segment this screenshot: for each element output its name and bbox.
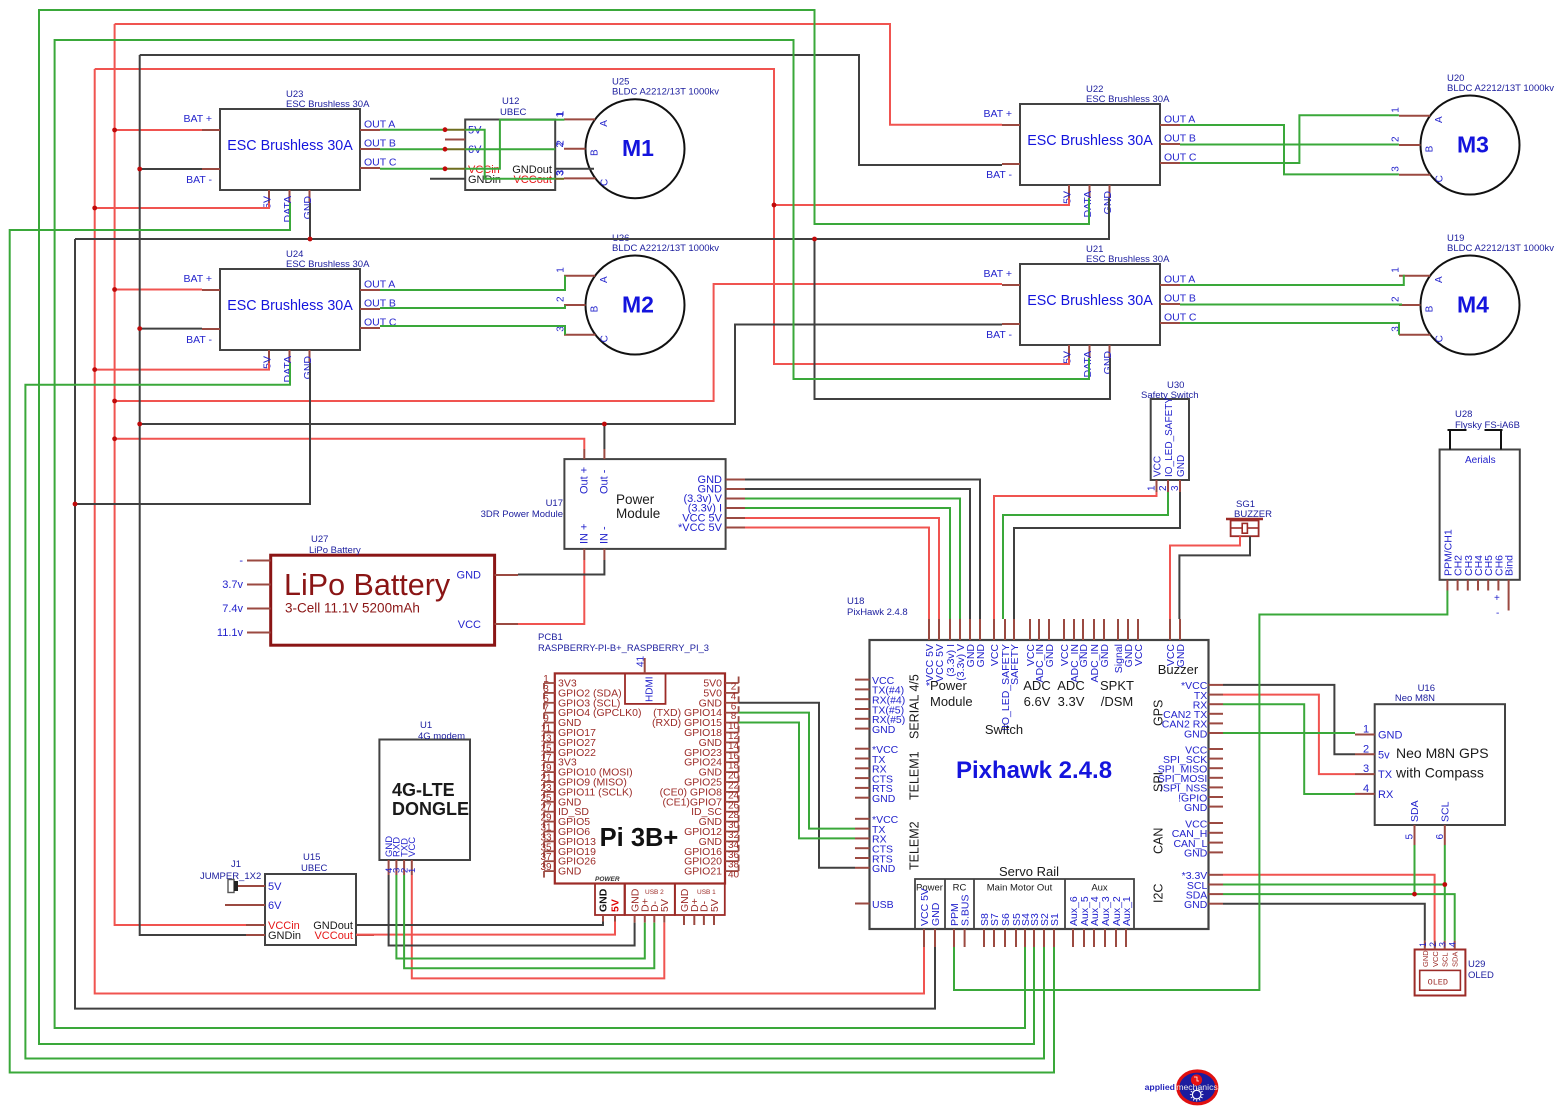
wire Pi GND to TELEM2 <box>739 703 855 868</box>
svg-text:BLDC A2212/13T 1000kv: BLDC A2212/13T 1000kv <box>1447 243 1554 254</box>
junction <box>112 399 117 404</box>
svg-text:Pixhawk 2.4.8: Pixhawk 2.4.8 <box>956 757 1112 784</box>
svg-text:GPIO21: GPIO21 <box>684 866 722 878</box>
svg-text:4G-LTE: 4G-LTE <box>392 780 455 800</box>
svg-text:GND: GND <box>872 724 896 736</box>
svg-text:39: 39 <box>540 862 552 873</box>
svg-text:U1: U1 <box>420 720 432 731</box>
wire LiPo VCC to IN+ <box>518 560 584 624</box>
ESC U24 (ESC Brushless 30A) <box>183 249 396 382</box>
wire U22 OUT C to M3-A <box>1180 115 1399 163</box>
svg-text:U17: U17 <box>546 498 563 509</box>
svg-text:2: 2 <box>556 296 567 302</box>
svg-text:U12: U12 <box>502 96 519 107</box>
svg-text:VCC: VCC <box>1133 644 1145 667</box>
svg-text:S1: S1 <box>1049 913 1061 926</box>
svg-text:DONGLE: DONGLE <box>392 799 469 819</box>
wire GND U21 branch <box>815 239 1111 399</box>
svg-text:Out +: Out + <box>579 467 591 494</box>
junction <box>137 326 142 331</box>
flight controller U18 (Pixhawk 2.4.8) <box>847 596 1223 947</box>
svg-text:1: 1 <box>1418 942 1428 947</box>
UBEC U12 <box>430 96 594 190</box>
svg-text:GND: GND <box>302 356 314 380</box>
svg-text:B: B <box>590 305 601 312</box>
svg-text:5V: 5V <box>262 356 274 369</box>
svg-text:ESC Brushless 30A: ESC Brushless 30A <box>286 99 370 110</box>
wire PM GND2 to Pixhawk <box>745 489 970 619</box>
svg-text:3: 3 <box>1363 763 1369 775</box>
svg-text:BAT +: BAT + <box>183 273 212 285</box>
svg-text:S.BUS: S.BUS <box>959 894 971 926</box>
svg-text:BAT +: BAT + <box>183 113 212 125</box>
svg-text:5V: 5V <box>709 899 721 912</box>
svg-text:RC: RC <box>953 883 967 894</box>
wire UBEC VCCout to Pi 5V <box>356 922 615 935</box>
wire GPS RX <box>1223 704 1355 794</box>
svg-text:GND: GND <box>457 570 482 582</box>
wire safety VCC <box>994 492 1157 619</box>
wire 4G VCC to USB2 5V <box>412 875 665 978</box>
wire LiPo GND to IN- <box>518 560 604 575</box>
svg-text:CAN: CAN <box>1152 828 1166 854</box>
svg-text:ESC Brushless 30A: ESC Brushless 30A <box>1027 293 1153 309</box>
svg-text:A: A <box>1434 276 1445 283</box>
svg-text:BAT +: BAT + <box>983 268 1012 280</box>
wire I2C 3.3V to OLED <box>1223 875 1435 941</box>
svg-text:1: 1 <box>1391 267 1402 273</box>
wire U24 OUT A to M2-A <box>380 276 565 290</box>
svg-text:GND: GND <box>1421 950 1430 967</box>
wire BAT+ U21 <box>115 284 1002 401</box>
junction <box>112 436 117 441</box>
svg-text:M2: M2 <box>622 292 654 318</box>
svg-text:Aux_1: Aux_1 <box>1121 896 1133 926</box>
svg-text:VCC: VCC <box>407 837 418 857</box>
svg-text:2: 2 <box>1158 485 1169 491</box>
wire I2C SDA to OLED <box>1223 894 1455 941</box>
svg-text:GND: GND <box>930 902 942 926</box>
svg-text:Main Motor Out: Main Motor Out <box>987 883 1053 894</box>
ESC U22 (ESC Brushless 30A) <box>983 84 1196 217</box>
svg-text:5V: 5V <box>262 196 274 209</box>
svg-text:JUMPER_1X2: JUMPER_1X2 <box>200 871 261 882</box>
svg-text:OUT B: OUT B <box>364 138 396 150</box>
svg-text:5V: 5V <box>268 881 282 893</box>
svg-text:3: 3 <box>1391 166 1402 172</box>
wire Pi TXD to TELEM2 TX <box>739 713 855 829</box>
wire BAT- top bus to U22 <box>140 55 1002 165</box>
Raspberry Pi PCB1 (Pi 3B+) <box>538 632 739 925</box>
svg-text:DATA: DATA <box>282 356 294 382</box>
svg-text:GND: GND <box>975 644 987 668</box>
svg-text:POWER: POWER <box>595 876 620 883</box>
svg-text:GND: GND <box>1099 644 1111 668</box>
ESC U23 (ESC Brushless 30A) <box>183 89 396 222</box>
junction <box>137 167 142 172</box>
svg-text:DATA: DATA <box>282 196 294 222</box>
wire U21 OUT A to M4-A <box>1180 275 1404 285</box>
svg-text:BAT +: BAT + <box>983 108 1012 120</box>
jumper J1 (JUMPER_1X2) <box>200 859 261 905</box>
wire BAT+ top bus to U22 <box>115 24 1002 125</box>
wire U21 OUT B to M4-B <box>1180 304 1402 306</box>
svg-text:GND: GND <box>598 888 610 912</box>
svg-text:BAT -: BAT - <box>986 329 1012 341</box>
svg-text:OUT A: OUT A <box>364 279 395 291</box>
svg-text:Neo M8N: Neo M8N <box>1395 693 1435 704</box>
junction <box>443 147 448 152</box>
wire U21 OUT C to M4-C <box>1180 323 1399 335</box>
svg-text:SDA: SDA <box>1451 952 1460 967</box>
wire Pi RXD to TELEM2 RX <box>739 723 855 839</box>
svg-text:5V: 5V <box>1062 351 1074 364</box>
svg-text:GND: GND <box>1184 848 1208 860</box>
svg-text:Module: Module <box>930 694 973 709</box>
motor M4 (U19 BLDC A2212/13T 1000kv) <box>1391 233 1555 355</box>
svg-text:3: 3 <box>1438 942 1448 947</box>
svg-text:SPKT: SPKT <box>1100 678 1134 693</box>
wire PM GND1 to Pixhawk <box>745 480 980 620</box>
svg-text:OUT B: OUT B <box>1164 133 1196 145</box>
svg-text:VCC: VCC <box>1153 456 1164 477</box>
svg-text:3: 3 <box>555 170 566 176</box>
4G modem U1 (4G-LTE DONGLE) <box>379 720 470 875</box>
receiver U28 (Flysky FS-iA6B) <box>1440 409 1520 619</box>
svg-text:SAFETY: SAFETY <box>1009 644 1021 685</box>
svg-text:Out -: Out - <box>599 469 611 494</box>
svg-text:ADC: ADC <box>1057 678 1084 693</box>
wire PM VCC 5V to Pixhawk <box>745 518 939 619</box>
svg-text:GND: GND <box>558 866 582 878</box>
motor M2 (U26 BLDC A2212/13T 1000kv) <box>556 233 720 355</box>
svg-text:1: 1 <box>1147 485 1158 491</box>
junction <box>772 203 777 208</box>
svg-text:C: C <box>1434 335 1445 342</box>
safety switch U30 <box>1141 380 1199 492</box>
wire U24 OUT C to M2-C <box>380 326 565 335</box>
svg-text:B: B <box>1425 305 1436 312</box>
svg-text:SDA: SDA <box>1409 800 1421 822</box>
wire DATA U23 to S1 <box>10 203 1054 1073</box>
svg-text:B: B <box>590 149 601 156</box>
svg-text:VCC: VCC <box>458 619 481 631</box>
svg-text:M4: M4 <box>1457 292 1489 318</box>
svg-text:HDMI: HDMI <box>645 676 656 702</box>
svg-text:3DR Power Module: 3DR Power Module <box>481 509 563 520</box>
svg-text:2: 2 <box>1391 296 1402 302</box>
wire safety IO_LED_SAFETY <box>1003 492 1168 619</box>
buzzer SG1 <box>1226 499 1272 536</box>
wire GND left bus to servo rail <box>75 239 935 1009</box>
svg-text:2: 2 <box>1363 743 1369 755</box>
junction <box>602 422 607 427</box>
svg-text:ADC: ADC <box>1023 678 1050 693</box>
svg-text:USB 2: USB 2 <box>645 889 664 896</box>
svg-text:C: C <box>599 335 610 342</box>
wire BAT- U23 <box>140 168 202 170</box>
svg-text:Power: Power <box>616 492 655 507</box>
svg-text:A: A <box>599 120 610 127</box>
wire GPS GND <box>1223 732 1355 734</box>
junction <box>812 237 817 242</box>
svg-text:U27: U27 <box>311 534 328 545</box>
svg-text:-: - <box>1496 608 1499 619</box>
svg-text:Pi 3B+: Pi 3B+ <box>600 824 679 852</box>
junction <box>443 127 448 132</box>
svg-text:M3: M3 <box>1457 132 1489 158</box>
svg-text:5V: 5V <box>1062 191 1074 204</box>
svg-text:GND: GND <box>872 793 896 805</box>
svg-text:3-Cell 11.1V 5200mAh: 3-Cell 11.1V 5200mAh <box>285 601 420 616</box>
wire OUT C U23 <box>380 168 445 170</box>
wire BAT- left bus <box>140 55 246 935</box>
svg-text:Bind: Bind <box>1504 555 1516 576</box>
motor M3 (U20 BLDC A2212/13T 1000kv) <box>1391 73 1555 195</box>
svg-text:M1: M1 <box>622 135 654 161</box>
svg-text:GND: GND <box>1176 455 1187 477</box>
svg-text:A: A <box>1434 116 1445 123</box>
svg-text:A: A <box>599 276 610 283</box>
svg-text:SPI: SPI <box>1152 772 1166 792</box>
svg-text:OLED: OLED <box>1468 970 1494 981</box>
svg-text:6V: 6V <box>268 900 282 912</box>
svg-text:1: 1 <box>556 267 567 273</box>
junction <box>112 287 117 292</box>
wire BAT- U24 <box>140 328 202 330</box>
svg-text:U18: U18 <box>847 596 864 607</box>
svg-text:BLDC A2212/13T 1000kv: BLDC A2212/13T 1000kv <box>612 87 719 98</box>
svg-text:11.1v: 11.1v <box>217 627 244 639</box>
svg-text:J1: J1 <box>231 859 241 870</box>
battery U27 (LiPo Battery) <box>217 534 518 645</box>
logo (applied mechanics) <box>1145 1071 1219 1104</box>
svg-text:ESC Brushless 30A: ESC Brushless 30A <box>227 138 353 154</box>
junction <box>308 237 313 242</box>
svg-text:TX: TX <box>1378 769 1393 781</box>
svg-text:BAT -: BAT - <box>186 174 212 186</box>
svg-text:Switch: Switch <box>985 722 1023 737</box>
svg-text:U29: U29 <box>1468 959 1485 970</box>
svg-text:USB: USB <box>872 899 894 911</box>
svg-text:with Compass: with Compass <box>1395 765 1484 781</box>
wire BAT+ left bus <box>115 24 246 925</box>
wire GPS TX <box>1223 695 1355 775</box>
wire U22 OUT A to M3-C <box>1180 125 1399 174</box>
svg-text:SERIAL 4/5: SERIAL 4/5 <box>908 674 922 739</box>
svg-text:OUT C: OUT C <box>1164 312 1197 324</box>
svg-text:ESC Brushless 30A: ESC Brushless 30A <box>1027 133 1153 149</box>
svg-text:GND: GND <box>302 196 314 220</box>
wire BAT- U21 <box>140 325 1002 425</box>
wire PPM net Flysky to Pixhawk <box>954 591 1447 991</box>
svg-text:ESC Brushless 30A: ESC Brushless 30A <box>1086 94 1170 105</box>
svg-text:UBEC: UBEC <box>301 863 328 874</box>
wire OUT B inside UBEC <box>465 148 555 150</box>
OLED U29 <box>1415 941 1494 996</box>
wire buzzer VCC <box>1170 536 1240 619</box>
svg-text:I2C: I2C <box>1152 884 1166 903</box>
svg-text:5V: 5V <box>659 899 671 912</box>
wire PM 3.3v V to Pixhawk <box>745 499 960 620</box>
svg-text:Buzzer: Buzzer <box>1158 662 1199 677</box>
wire GND rail y239 <box>75 198 1109 239</box>
svg-text:5: 5 <box>1405 834 1416 840</box>
svg-text:GND: GND <box>1184 802 1208 814</box>
svg-text:1: 1 <box>1363 724 1369 736</box>
ESC U21 (ESC Brushless 30A) <box>983 244 1196 377</box>
wire 5V bus top <box>95 69 1069 364</box>
junction <box>1412 892 1417 897</box>
svg-text:Power: Power <box>930 678 968 693</box>
svg-text:-: - <box>239 555 243 567</box>
svg-text:SCL: SCL <box>1441 952 1450 967</box>
svg-text:4G modem: 4G modem <box>418 731 465 742</box>
svg-text:*VCC 5V: *VCC 5V <box>678 522 723 534</box>
svg-text:VCC: VCC <box>1431 951 1440 967</box>
svg-text:2: 2 <box>1391 136 1402 142</box>
junction <box>137 422 142 427</box>
svg-text:LiPo Battery: LiPo Battery <box>309 545 361 556</box>
svg-text:BLDC A2212/13T 1000kv: BLDC A2212/13T 1000kv <box>612 243 719 254</box>
svg-text:OUT C: OUT C <box>364 157 397 169</box>
svg-text:7.4v: 7.4v <box>222 603 243 615</box>
svg-text:RASPBERRY-PI-B+_RASPBERRY_PI_3: RASPBERRY-PI-B+_RASPBERRY_PI_3 <box>538 642 709 653</box>
wire 5V U24 <box>95 363 269 370</box>
svg-text:3.7v: 3.7v <box>222 579 243 591</box>
wire 4G TXD to USB2 D- <box>404 875 654 968</box>
svg-text:U15: U15 <box>303 852 320 863</box>
svg-text:BLDC A2212/13T 1000kv: BLDC A2212/13T 1000kv <box>1447 83 1554 94</box>
wire OUT A U23 <box>380 129 445 131</box>
svg-text:SCL: SCL <box>1439 801 1451 822</box>
svg-text:1: 1 <box>407 868 418 873</box>
svg-text:OLED: OLED <box>1428 978 1448 988</box>
wire DATA U21 to S4 <box>55 40 1089 1028</box>
svg-text:4: 4 <box>1363 783 1369 795</box>
svg-text:UBEC: UBEC <box>500 107 527 118</box>
svg-text:OUT C: OUT C <box>1164 152 1197 164</box>
wire 4G GND to USB2 <box>389 875 635 946</box>
svg-text:VCCout: VCCout <box>314 930 353 942</box>
svg-text:Aux: Aux <box>1091 883 1108 894</box>
junction <box>1442 882 1447 887</box>
wire OUT C via UBEC to M1-A <box>465 120 555 169</box>
junction <box>443 166 448 171</box>
UBEC U15 <box>245 852 374 945</box>
wire OUT A via UBEC to M1-C <box>465 130 555 179</box>
wire 5V U23 <box>95 203 269 208</box>
wire GPS 5v <box>1223 685 1355 754</box>
wire I2C SCL <box>1223 884 1445 886</box>
svg-text:TELEM2: TELEM2 <box>908 821 922 870</box>
svg-text:GND: GND <box>1102 351 1114 375</box>
svg-text:C: C <box>599 179 610 186</box>
wire BAT+ U24 <box>115 289 202 291</box>
svg-text:4: 4 <box>1448 942 1458 947</box>
wire 5V U22 <box>774 198 1069 205</box>
svg-text:C: C <box>1434 175 1445 182</box>
svg-text:OUT A: OUT A <box>1164 114 1195 126</box>
wire SCL GPS to OLED <box>1444 845 1446 941</box>
svg-text:6: 6 <box>1435 834 1446 840</box>
svg-text:IN +: IN + <box>579 524 591 544</box>
svg-text:OUT B: OUT B <box>1164 293 1196 305</box>
svg-text:GND: GND <box>1184 728 1208 740</box>
svg-text:+: + <box>1494 593 1500 604</box>
svg-text:2: 2 <box>555 142 566 148</box>
svg-text:5v: 5v <box>1378 749 1390 761</box>
wire 5V left bus to servo rail <box>95 69 924 994</box>
svg-text:GPS: GPS <box>1152 700 1166 726</box>
svg-text:TELEM1: TELEM1 <box>908 751 922 800</box>
wire buzzer GND <box>1179 536 1250 619</box>
svg-text:BAT -: BAT - <box>986 169 1012 181</box>
wire PM *VCC 5V to Pixhawk <box>745 528 929 620</box>
power module U17 (3DR Power Module) <box>481 449 745 560</box>
wire battery Out- <box>603 424 605 449</box>
svg-text:/DSM: /DSM <box>1101 694 1134 709</box>
svg-text:1: 1 <box>555 112 566 118</box>
wire DATA U24 to S2 <box>25 363 1044 1059</box>
svg-text:B: B <box>1425 145 1436 152</box>
wire battery Out+ <box>115 439 585 449</box>
svg-text:Aerials: Aerials <box>1465 455 1496 466</box>
svg-text:RX: RX <box>1378 789 1394 801</box>
wire DATA U22 to S3 <box>39 10 1089 1044</box>
svg-text:GND: GND <box>872 863 896 875</box>
svg-text:ESC Brushless 30A: ESC Brushless 30A <box>286 259 370 270</box>
junction <box>92 206 97 211</box>
svg-text:IN -: IN - <box>599 526 611 544</box>
svg-text:BAT -: BAT - <box>186 334 212 346</box>
wire BAT+ U23 <box>115 129 202 131</box>
svg-text:3: 3 <box>1170 485 1181 491</box>
wire SDA GPS vertical <box>1414 845 1416 894</box>
wire UBEC GNDout to Pi <box>356 922 603 926</box>
junction <box>92 367 97 372</box>
svg-text:LiPo Battery: LiPo Battery <box>284 568 451 602</box>
svg-text:Neo M8N GPS: Neo M8N GPS <box>1396 745 1489 761</box>
wire safety GND <box>1014 492 1180 619</box>
wire GND U24 <box>75 363 310 504</box>
svg-text:GND: GND <box>1184 899 1208 911</box>
svg-text:GNDin: GNDin <box>268 930 301 942</box>
wire GND U23 <box>309 203 311 239</box>
svg-text:41: 41 <box>636 655 647 667</box>
svg-text:applied: applied <box>1145 1082 1175 1092</box>
motor M1 (U25 BLDC A2212/13T 1000kv) <box>556 77 720 199</box>
svg-text:1: 1 <box>1391 107 1402 113</box>
svg-text:ESC Brushless 30A: ESC Brushless 30A <box>1086 254 1170 265</box>
junction <box>73 502 78 507</box>
wire 4G RXD to USB2 D+ <box>396 875 644 959</box>
svg-text:40: 40 <box>728 870 740 881</box>
wire PM 3.3v I to Pixhawk <box>745 508 950 619</box>
svg-text:2: 2 <box>1428 942 1438 947</box>
svg-text:OUT A: OUT A <box>1164 274 1195 286</box>
svg-text:USB 1: USB 1 <box>697 889 716 896</box>
svg-text:GND: GND <box>1378 730 1403 742</box>
svg-text:U28: U28 <box>1455 409 1472 420</box>
svg-text:5V: 5V <box>610 899 622 912</box>
GPS U16 (Neo M8N with Compass) <box>1355 683 1505 845</box>
wire U22 OUT B to M3-B <box>1180 144 1399 146</box>
wire I2C GND to OLED <box>1223 904 1425 941</box>
svg-text:GND: GND <box>1044 644 1056 668</box>
svg-text:3.3V: 3.3V <box>1058 694 1085 709</box>
svg-text:Module: Module <box>616 506 660 521</box>
